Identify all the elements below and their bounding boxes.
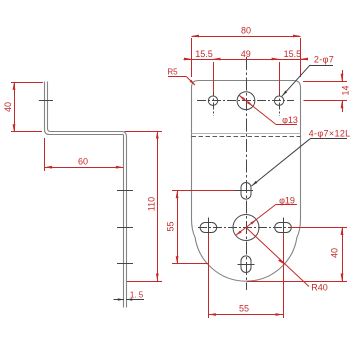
- svg-text:80: 80: [241, 26, 251, 36]
- svg-text:60: 60: [78, 157, 88, 167]
- svg-text:110: 110: [146, 197, 156, 211]
- svg-text:40: 40: [330, 248, 340, 258]
- svg-text:40: 40: [3, 102, 13, 112]
- svg-text:14: 14: [340, 85, 350, 95]
- svg-text:φ19: φ19: [279, 196, 295, 206]
- svg-text:R5: R5: [167, 68, 178, 77]
- svg-text:55: 55: [239, 304, 249, 314]
- svg-text:15.5: 15.5: [195, 49, 213, 59]
- svg-text:15.5: 15.5: [284, 49, 302, 59]
- svg-text:φ13: φ13: [282, 115, 298, 125]
- svg-text:1. 5: 1. 5: [130, 291, 144, 300]
- svg-text:R40: R40: [311, 283, 328, 293]
- svg-text:55: 55: [165, 221, 175, 231]
- svg-text:49: 49: [241, 49, 251, 59]
- svg-text:4-φ7×12L: 4-φ7×12L: [309, 129, 350, 139]
- svg-text:2-φ7: 2-φ7: [314, 55, 334, 65]
